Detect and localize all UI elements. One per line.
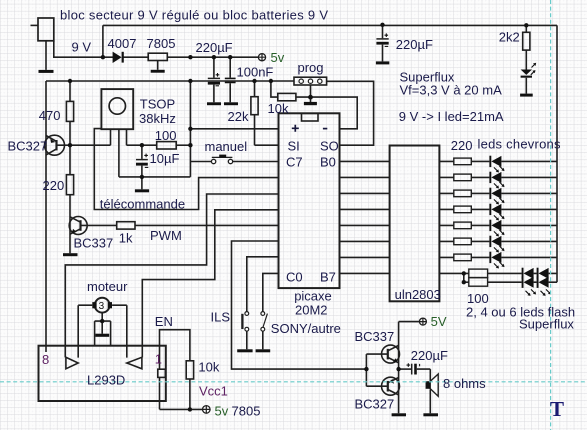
svg-text:220µF: 220µF [396, 37, 433, 52]
svg-text:SONY/autre: SONY/autre [271, 321, 341, 336]
svg-text:100nF: 100nF [237, 65, 274, 80]
svg-text:manuel: manuel [205, 139, 248, 154]
svg-text:C0: C0 [286, 269, 303, 284]
svg-text:BC327: BC327 [8, 139, 48, 154]
svg-text:TSOP: TSOP [140, 96, 175, 111]
svg-text:4007: 4007 [108, 36, 137, 51]
svg-text:10k: 10k [268, 101, 289, 116]
svg-text:Superflux: Superflux [519, 317, 574, 332]
svg-text:SO: SO [320, 139, 339, 154]
svg-text:8 ohms: 8 ohms [443, 376, 486, 391]
svg-text:8: 8 [42, 352, 49, 367]
svg-text:Vcc1: Vcc1 [199, 384, 228, 399]
svg-text:5v: 5v [271, 50, 285, 65]
svg-text:prog: prog [298, 60, 324, 75]
svg-text:C7: C7 [286, 155, 303, 170]
svg-text:BC337: BC337 [74, 236, 114, 251]
svg-text:EN: EN [155, 314, 173, 329]
svg-text:5v: 5v [215, 403, 229, 418]
svg-text:20M2: 20M2 [295, 303, 328, 318]
svg-text:PWM: PWM [150, 228, 182, 243]
svg-text:22k: 22k [228, 109, 249, 124]
svg-text:220: 220 [451, 138, 473, 153]
svg-text:BC337: BC337 [355, 329, 395, 344]
svg-text:picaxe: picaxe [294, 288, 332, 303]
svg-text:SI: SI [288, 139, 300, 154]
svg-text:470: 470 [39, 108, 61, 123]
svg-text:10µF: 10µF [150, 151, 180, 166]
svg-text:T: T [550, 397, 564, 421]
svg-text:38kHz: 38kHz [139, 111, 176, 126]
svg-text:7805: 7805 [232, 403, 261, 418]
svg-text:220: 220 [43, 178, 65, 193]
svg-text:3: 3 [99, 301, 105, 312]
svg-text:moteur: moteur [87, 279, 128, 294]
svg-text:télécommande: télécommande [100, 196, 185, 211]
svg-text:B7: B7 [320, 269, 336, 284]
svg-text:9 V -> I led=21mA: 9 V -> I led=21mA [399, 109, 504, 124]
svg-text:bloc secteur 9 V régulé ou blo: bloc secteur 9 V régulé ou bloc batterie… [60, 7, 328, 22]
svg-text:7805: 7805 [147, 36, 176, 51]
svg-text:B0: B0 [320, 155, 336, 170]
svg-text:220µF: 220µF [411, 348, 448, 363]
svg-text:9 V: 9 V [72, 40, 92, 55]
svg-text:2k2: 2k2 [499, 29, 520, 44]
svg-text:10k: 10k [198, 359, 219, 374]
svg-text:L293D: L293D [87, 373, 125, 388]
svg-text:5V: 5V [431, 314, 447, 329]
svg-text:Vf=3,3 V à 20 mA: Vf=3,3 V à 20 mA [400, 83, 503, 98]
svg-text:leds chevrons: leds chevrons [478, 137, 562, 152]
svg-text:ILS: ILS [211, 309, 231, 324]
svg-text:uln2803: uln2803 [395, 287, 441, 302]
svg-text:1k: 1k [119, 231, 133, 246]
svg-text:1: 1 [155, 352, 162, 367]
svg-text:100: 100 [155, 128, 177, 143]
svg-text:220µF: 220µF [196, 40, 233, 55]
svg-text:BC327: BC327 [355, 396, 395, 411]
